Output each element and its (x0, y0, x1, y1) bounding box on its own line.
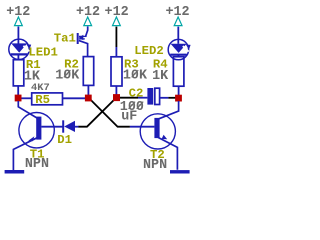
wire P3 to R3 (115, 27, 117, 47)
slash zero 100 a (129, 102, 136, 109)
slash zero 10K right (132, 70, 139, 77)
wire LED1 to R1 (17, 55, 19, 60)
svg-text:R5: R5 (35, 93, 50, 107)
wire T1 collector to J1 (18, 101, 37, 118)
ground left (5, 170, 25, 174)
wire R5 to node J2 (63, 97, 89, 99)
pin C2 right (160, 97, 169, 99)
pin C2 left (138, 97, 147, 99)
junction J3 (113, 94, 120, 101)
junction J1 (15, 95, 22, 102)
ground right (170, 170, 190, 173)
wire J3 cross to D1 (78, 98, 116, 127)
wire R1 to node J1 (17, 86, 19, 96)
resistor R4 (173, 57, 184, 86)
svg-text:C2: C2 (129, 86, 144, 100)
transistor T1 (19, 113, 54, 148)
pin T2 base (130, 126, 155, 128)
power +12 P4 symbol (174, 17, 182, 26)
slash zero 10K left (64, 70, 71, 77)
wire T1 base to D1 (41, 126, 62, 128)
svg-text:10K: 10K (55, 69, 80, 84)
junction J2 (85, 95, 92, 102)
resistor R3 (111, 57, 122, 86)
wire R3 to node J3 (115, 86, 117, 95)
slash zero 100 b (137, 102, 144, 109)
power +12 P2 symbol (84, 17, 92, 26)
wire J3 to C2 (118, 97, 138, 99)
resistor R5 (32, 93, 63, 105)
transistor T2 (140, 114, 175, 149)
wire T1 emitter to ground (13, 138, 37, 170)
svg-text:uF: uF (121, 109, 137, 124)
power +12 P1 symbol (15, 17, 23, 26)
svg-text:4K7: 4K7 (31, 82, 50, 94)
wire R2 to node J2 (87, 86, 89, 96)
wire T2 collector to J4 (159, 101, 179, 119)
pin R3 top (115, 47, 117, 57)
wire T2 emitter to ground (158, 137, 177, 169)
resistor R1 (13, 60, 23, 86)
LED LED1 (9, 39, 31, 59)
svg-text:NPN: NPN (25, 157, 49, 172)
svg-text:NPN: NPN (143, 158, 167, 173)
svg-text:D1: D1 (57, 133, 72, 147)
junction J4 (175, 95, 182, 102)
svg-text:Ta1: Ta1 (54, 32, 76, 46)
LED LED2 (168, 39, 190, 59)
wire LED2 to R4 (177, 56, 179, 57)
diode D1 (63, 120, 78, 132)
wire P4 to LED2 (177, 27, 179, 44)
svg-text:10K: 10K (123, 68, 148, 83)
resistor R2 (83, 57, 93, 86)
transistor Ta1 (77, 26, 88, 56)
power +12 P3 symbol (113, 17, 121, 26)
wire J2 cross to T2 base (88, 98, 130, 127)
wire C2 to node J4 (168, 97, 176, 99)
svg-text:1K: 1K (152, 69, 169, 84)
wire J1 to R5 (18, 97, 32, 99)
wire P1 to LED1 (17, 27, 19, 44)
wire R4 to node J4 (178, 86, 180, 95)
svg-text:LED2: LED2 (134, 44, 164, 58)
capacitor C2 (147, 88, 159, 105)
